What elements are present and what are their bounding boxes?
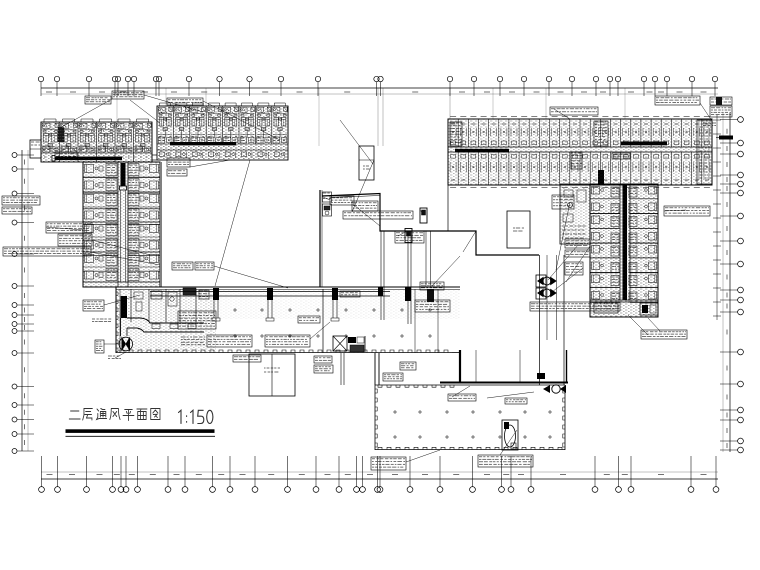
courtyard AHU cluster at wall bbox=[323, 192, 332, 216]
left column corridor duct (dark) bbox=[120, 163, 127, 282]
long band exhaust duct 2 (dark) bbox=[621, 142, 667, 146]
guest room band A top-left bbox=[41, 119, 152, 162]
hall1 AHU with cross bbox=[333, 336, 365, 352]
left dimension line with grid bubbles bbox=[12, 150, 34, 454]
right column bottom fan room bbox=[590, 300, 658, 317]
small shaft rectangle mid-plan bbox=[359, 146, 374, 180]
bottom dimension line with column grid bubbles bbox=[39, 456, 719, 492]
construction drop lines bbox=[117, 88, 625, 146]
axial fan symbol (bowtie) bbox=[119, 337, 133, 352]
long band stair core (dense) bbox=[450, 122, 462, 146]
heavy interior wall (L-shaped) bbox=[322, 185, 539, 255]
left lower callouts bbox=[83, 300, 121, 358]
left margin callouts bbox=[2, 152, 92, 256]
courtyard label boxes bbox=[167, 158, 214, 270]
right guest room column bbox=[590, 184, 658, 317]
long callout right-mid bbox=[530, 302, 620, 311]
hall1 main supply duct with branches bbox=[150, 287, 434, 321]
title: second floor ventilation plan 1:150 bbox=[69, 409, 213, 424]
title thick underline bbox=[66, 429, 216, 436]
right dimension line with grid bubbles bbox=[720, 113, 743, 453]
secondary right dimension ticks bbox=[713, 115, 721, 320]
damper on wall bbox=[405, 229, 412, 243]
hall3 diffuser marks bbox=[393, 410, 552, 439]
hall1 label block 3 bbox=[415, 300, 450, 312]
band A corridor supply air duct (dark) bbox=[52, 156, 122, 162]
long band exhaust duct 1 (dark) bbox=[455, 149, 509, 153]
band B corridor supply duct (dark) bbox=[170, 142, 236, 145]
right mid callouts bbox=[552, 195, 710, 275]
left guest room column bbox=[83, 162, 160, 287]
hall3 bottom callouts bbox=[371, 398, 533, 470]
hall1 dense spec block bbox=[178, 311, 216, 345]
long guest room band top-right bbox=[448, 117, 712, 188]
right annex dark riser bbox=[598, 170, 604, 184]
annotation leader lines bbox=[46, 95, 712, 462]
right column corridor duct (dark) bbox=[623, 185, 628, 300]
hall1 left duct with bend (dark riser) bbox=[121, 296, 204, 336]
bottom-right hall outline (ticked walls) bbox=[375, 385, 565, 450]
drawing texture overlay bbox=[41, 106, 712, 352]
hall1 equipment label block 1 bbox=[207, 335, 252, 347]
right column left annex bbox=[560, 184, 590, 244]
corridor link band A-B bbox=[152, 155, 157, 160]
hall1 fan room partitions bbox=[131, 288, 209, 322]
middle hall outline bbox=[116, 287, 460, 383]
callout above band A bbox=[85, 91, 144, 104]
shaft channel to lower hall bbox=[540, 255, 565, 385]
supply fan 2 (shaft) bbox=[536, 288, 557, 299]
stairwell below hall1 bbox=[249, 354, 295, 396]
mid callouts bbox=[330, 196, 476, 401]
right bottom callout bbox=[641, 330, 687, 339]
hall3 fan coil unit bbox=[502, 420, 518, 450]
top dimension line with column grid bubbles bbox=[38, 76, 718, 96]
hall1 equipment label block 2 bbox=[265, 335, 310, 347]
inter-hall exhaust fan (funnel+circle) bbox=[543, 385, 566, 393]
hall1 right partitions and risers bbox=[381, 231, 438, 353]
hall1 ceiling diffuser marks bbox=[233, 308, 432, 338]
band A left entry stub bbox=[30, 140, 41, 158]
long top callout bbox=[343, 211, 413, 219]
hall1 small labels bbox=[298, 291, 360, 323]
callout above long band bbox=[550, 96, 732, 117]
hall3 connector duct bbox=[341, 353, 379, 385]
right band dark label bbox=[703, 123, 733, 140]
band A shaft closet stack bbox=[58, 128, 64, 142]
inter-hall heavy walled area bbox=[440, 350, 568, 383]
elevator lobby rectangle bbox=[507, 211, 530, 248]
courtyard walls bbox=[160, 162, 322, 287]
long band elevator core (dense) bbox=[571, 121, 608, 169]
long band right end bath cluster bbox=[697, 120, 712, 184]
grid reference lines bbox=[378, 88, 450, 146]
guest room band B top-middle bbox=[157, 103, 288, 160]
labels below hall1 wall bbox=[314, 356, 416, 373]
supply fan 1 (shaft) bbox=[536, 275, 557, 287]
misc callouts bbox=[167, 98, 630, 362]
pressurization damper bbox=[420, 208, 427, 223]
